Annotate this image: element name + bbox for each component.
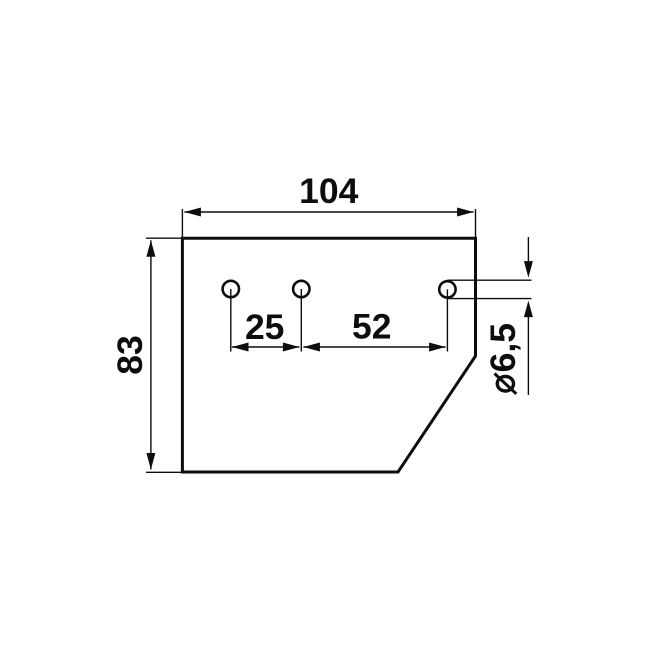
extension line top of dimension 83 [146, 237, 182, 239]
dimension text 83 (rotated) [110, 335, 150, 375]
svg-text:104: 104 [299, 171, 358, 211]
svg-text:6,5: 6,5 [483, 323, 523, 372]
bottom tangent leader line of hole H3 [447, 298, 531, 300]
extension line left of dimension 104 [181, 209, 183, 238]
extension line from hole H3 [446, 289, 448, 351]
dimension line 25 [232, 343, 299, 352]
dimension line 52 [303, 343, 445, 352]
plate outline [182, 238, 475, 472]
svg-text:83: 83 [110, 335, 150, 375]
top tangent leader line of hole H3 [447, 279, 531, 281]
hole H1 [223, 281, 239, 297]
dimension line 104 [184, 208, 473, 217]
diameter dimension upper arrow [524, 237, 533, 278]
dimension line 83 [146, 240, 155, 469]
svg-text:25: 25 [245, 307, 285, 347]
extension line from hole H1 [230, 289, 232, 352]
dimension text 25 [245, 307, 285, 347]
extension line bottom of dimension 83 [146, 471, 182, 473]
dimension text 52 [352, 307, 392, 347]
extension line from hole H2 [300, 289, 302, 352]
extension line right of dimension 104 [475, 209, 477, 238]
dimension text 104 [299, 171, 358, 211]
dimension text diameter 6,5 (rotated) [483, 323, 523, 394]
hole H2 [293, 281, 309, 297]
diameter dimension lower arrow [524, 301, 533, 395]
hole H3 [439, 281, 455, 297]
svg-text:52: 52 [352, 307, 392, 347]
